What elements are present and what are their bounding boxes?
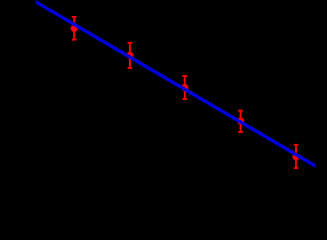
data point 1 marker	[71, 25, 78, 32]
data point 3 error bar	[183, 76, 188, 99]
data point 4 error bar	[238, 111, 243, 132]
data point 2 marker	[126, 52, 133, 59]
data point 5 marker	[292, 153, 299, 160]
fitted line (drawn on top, clipped vertically at plot edges)	[34, 1, 317, 167]
data point 1 error bar	[72, 17, 77, 40]
data point 4 marker	[237, 118, 244, 125]
data point 3 marker	[181, 84, 188, 91]
data point 2 error bar	[128, 43, 133, 68]
data point 5 error bar	[294, 145, 299, 168]
